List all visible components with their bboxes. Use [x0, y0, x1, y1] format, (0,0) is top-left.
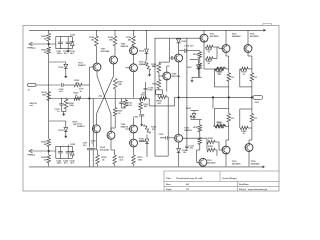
resistor R133b 1R	[250, 109, 257, 128]
wire T118 emitter	[248, 151, 250, 167]
label C121	[56, 51, 62, 55]
wire T105-T107	[133, 54, 135, 64]
node bus junction L	[228, 96, 230, 98]
wire vas rail	[155, 37, 202, 39]
svg-text:Rev/Date:: Rev/Date:	[239, 183, 249, 186]
title block divider B	[237, 181, 239, 191]
capacitor C106	[144, 82, 154, 99]
wire D106 to rail	[178, 152, 180, 166]
zener D121	[70, 34, 76, 48]
resistor R130	[204, 47, 217, 65]
resistor R116	[126, 30, 135, 47]
-V arrow	[262, 165, 265, 168]
transistor T110 driver	[175, 54, 183, 62]
resistor VR101 wiper	[158, 94, 168, 99]
rev text	[239, 183, 249, 186]
wire T116 emitter	[248, 52, 252, 69]
wire -V rail	[29, 166, 262, 168]
resistor R120	[89, 30, 98, 63]
wire +V rail	[29, 29, 263, 31]
capacitor C109	[91, 99, 96, 167]
transistor T109	[163, 72, 181, 80]
label C122	[56, 161, 62, 165]
wire T112 emitter	[226, 52, 229, 69]
capacitor C123	[66, 37, 71, 49]
resistor R119	[152, 73, 160, 90]
resistor R131 1R	[227, 69, 234, 87]
wire input	[36, 84, 61, 86]
wire vas rail bottom	[155, 155, 168, 157]
capacitor C108	[133, 110, 144, 124]
transistor T104	[100, 131, 115, 151]
svg-text:220n: 220n	[57, 163, 62, 165]
transistor T106	[121, 124, 138, 133]
resistor R135	[207, 138, 222, 150]
transistor T111	[200, 34, 219, 42]
resistor R126	[41, 152, 50, 166]
wire vas drop 169	[169, 38, 171, 54]
ground arrow under cap bank	[67, 49, 70, 53]
title text	[166, 177, 237, 180]
resistor R103	[74, 93, 81, 101]
svg-text:2SC5200: 2SC5200	[207, 163, 217, 165]
svg-text:2SC2240: 2SC2240	[101, 50, 111, 53]
diode D106	[177, 142, 188, 154]
resistor R140	[240, 126, 252, 135]
wire to D101	[49, 62, 66, 64]
resistor R113	[132, 155, 143, 166]
title block row line 1	[164, 180, 279, 182]
node bus junction R	[251, 96, 253, 98]
wire R132 loop	[214, 69, 228, 87]
svg-text:OUT: OUT	[255, 102, 260, 104]
ground arrow RC	[62, 114, 65, 116]
resistor R110	[139, 99, 149, 111]
svg-text:2SA970: 2SA970	[121, 125, 129, 128]
wire R137 loop	[214, 109, 228, 127]
title block outline	[164, 171, 279, 191]
ground arrow C108	[140, 124, 143, 126]
wire box L to bus	[228, 87, 230, 98]
wire T109 emitter	[166, 79, 168, 91]
wire R128 to T112 base	[213, 47, 223, 49]
wire bus step	[149, 97, 178, 106]
resistor R121 diagonal	[145, 53, 157, 70]
page text	[166, 189, 190, 191]
wire T106 base	[126, 128, 130, 130]
capacitor C104	[119, 99, 132, 109]
capacitor C122	[58, 146, 63, 158]
svg-text:PWR(+): PWR(+)	[28, 48, 36, 50]
wire box R to bus	[251, 87, 253, 98]
wire T111 drop	[203, 30, 205, 35]
wire R117 top	[159, 62, 170, 63]
file text	[239, 188, 267, 191]
wire T102 emitter	[96, 133, 97, 156]
wire D105 to T110	[178, 43, 180, 54]
svg-text:2SC5200: 2SC5200	[232, 163, 242, 165]
svg-text:D121: D121	[70, 34, 76, 36]
resistor R106	[124, 99, 133, 108]
title block divider A	[219, 171, 221, 181]
transistor T105	[121, 44, 138, 55]
capacitor C121	[58, 37, 63, 49]
wire RC join	[62, 112, 67, 115]
transistor T118	[245, 144, 260, 166]
wire D104 to rail	[146, 143, 148, 157]
resistor R123	[41, 30, 50, 43]
svg-text:2SA1943: 2SA1943	[232, 35, 242, 38]
wire T104 base	[111, 124, 115, 132]
wire box L bottom to bus	[228, 97, 230, 108]
label R127	[73, 122, 79, 126]
wire cross B	[96, 64, 113, 125]
wire T114 collector	[226, 126, 229, 147]
svg-text:Title:: Title:	[166, 177, 171, 180]
svg-text:Crown (Briga): Crown (Briga)	[222, 178, 237, 180]
svg-text:File(s):: File(s):	[239, 189, 246, 191]
wire T104 emitter	[111, 139, 115, 155]
svg-text:2SA1943: 2SA1943	[251, 162, 261, 165]
node bus junction mid	[212, 96, 214, 98]
resistor R104	[64, 98, 74, 112]
transistor T103	[101, 48, 118, 64]
wire T113 base rail	[197, 150, 200, 162]
wire T113 emitter	[202, 165, 204, 167]
capacitor bank box top	[56, 37, 73, 49]
label C124	[63, 160, 69, 165]
wire to D102	[49, 121, 66, 128]
wire T110 emitter	[178, 62, 180, 96]
svg-text:Size:: Size:	[166, 184, 171, 186]
resistor R137	[213, 122, 226, 128]
capacitor bank box bottom	[56, 146, 73, 158]
label PWR(-)	[28, 155, 36, 157]
title block row line 2	[164, 185, 279, 187]
resistor R107	[113, 155, 125, 166]
resistor R137b	[214, 123, 228, 128]
label C126	[70, 161, 76, 165]
svg-text:R136: R136	[193, 127, 198, 129]
wire D103 drop	[146, 30, 148, 49]
resistor R136v	[193, 120, 202, 132]
label PWR(+)	[28, 48, 36, 50]
capacitor C114 miller	[170, 54, 175, 62]
zener D122	[70, 144, 76, 158]
trimpot VR101 box	[156, 90, 163, 94]
resistor R133 1R	[250, 69, 257, 87]
transistor T110b driver	[175, 127, 193, 142]
wire bottom cap bank stub	[67, 145, 69, 147]
svg-text:D107: D107	[187, 67, 192, 69]
transistor T101	[78, 63, 101, 71]
wire T109 base	[159, 75, 164, 77]
diode D102	[59, 128, 68, 132]
wire T112 drop	[225, 30, 227, 45]
resistor R136b	[198, 132, 202, 150]
wire to input node	[82, 84, 89, 86]
resistor R132	[204, 59, 224, 76]
svg-text:D108: D108	[186, 108, 191, 110]
wire box R bottom to bus	[251, 97, 253, 109]
wire T106-T108	[133, 133, 135, 139]
svg-text:2SC2240: 2SC2240	[100, 148, 110, 151]
label unlinked	[30, 103, 38, 107]
supply arrow under D102	[64, 132, 67, 139]
svg-text:D101: D101	[59, 67, 65, 69]
wire cross A	[97, 71, 111, 132]
wire C104 R106 join	[122, 107, 126, 109]
capacitor C102	[59, 83, 65, 93]
svg-text:2SA970: 2SA970	[121, 45, 129, 48]
capacitor C110	[179, 44, 200, 52]
resistor R105	[96, 155, 108, 166]
resistor R134v	[193, 51, 202, 59]
terminal PWR(+) arrow	[29, 42, 56, 45]
zener cell bottom	[186, 97, 202, 145]
svg-text:2SA970: 2SA970	[78, 64, 86, 67]
svg-text:D102: D102	[59, 130, 65, 132]
diode D105	[177, 38, 188, 43]
resistor R128	[206, 45, 214, 53]
transistor T107	[130, 61, 148, 71]
wire T101 base	[89, 66, 93, 68]
resistor R114	[140, 92, 147, 100]
+V arrow	[263, 29, 266, 32]
transistor T116	[244, 34, 259, 53]
resistor R118	[108, 30, 117, 55]
diode D103	[139, 49, 148, 53]
wire T107 base	[126, 67, 130, 69]
wire mid drop	[212, 97, 214, 108]
resistor R122 diagonal	[144, 125, 157, 134]
wire R140 loop	[240, 109, 252, 128]
svg-text:2SA970: 2SA970	[77, 125, 85, 128]
svg-text:D103: D103	[139, 51, 145, 53]
size text	[166, 183, 190, 186]
resistor R132	[214, 67, 228, 76]
transistor T113	[199, 158, 216, 166]
capacitor C112	[159, 134, 175, 140]
transistor T114	[222, 146, 241, 165]
resistor R102	[42, 92, 51, 101]
wire input column	[88, 67, 90, 148]
zener cell top	[187, 38, 202, 97]
svg-text:220n: 220n	[57, 53, 62, 55]
transistor T108	[130, 138, 148, 147]
svg-text:2SB649: 2SB649	[139, 63, 147, 66]
svg-text:Page:: Page:	[166, 189, 172, 191]
capacitor C107	[83, 143, 92, 167]
resistor R131b 1R	[227, 109, 234, 127]
node PWR+ junction	[48, 43, 50, 45]
label C123	[63, 51, 69, 55]
wire T106 collector	[133, 118, 135, 125]
wire after C102	[63, 84, 74, 86]
svg-text:2SC2240: 2SC2240	[172, 75, 182, 78]
resistor R109	[113, 79, 123, 99]
wire main bus	[49, 98, 150, 100]
svg-text:Thunderbird amp-07 mkII: Thunderbird amp-07 mkII	[176, 178, 203, 180]
label C111	[99, 95, 103, 97]
node PWR- junction	[48, 150, 50, 152]
terminal PWR(-) arrow	[29, 149, 56, 152]
node feedback junction	[88, 97, 90, 99]
svg-text:100n: 100n	[148, 90, 153, 92]
svg-text:2SA970: 2SA970	[184, 129, 192, 132]
svg-text:2SC5200: 2SC5200	[250, 36, 260, 38]
wire box drop	[167, 97, 169, 156]
transistor T102	[77, 123, 100, 132]
terminal IN	[28, 84, 37, 92]
svg-text:D104: D104	[139, 140, 145, 143]
ground arrow R121	[148, 71, 151, 77]
terminal OUT	[253, 95, 263, 104]
wire T116 drop	[247, 30, 249, 45]
drawing frame	[23, 26, 279, 192]
diode D104	[139, 135, 149, 144]
transistor T112	[222, 34, 241, 53]
wire T109 collector	[167, 66, 170, 72]
wire T118 collector	[249, 128, 252, 145]
wire driver output bottom	[183, 138, 208, 142]
svg-text:2SC5200: 2SC5200	[210, 36, 220, 38]
svg-text:2W: 2W	[73, 124, 76, 126]
capacitor C116	[185, 145, 195, 151]
svg-text:unl.: unl.	[30, 105, 34, 107]
resistor R117	[152, 63, 160, 72]
svg-text:PWR(-): PWR(-)	[28, 155, 36, 157]
label C125	[70, 51, 76, 55]
wire left column	[48, 54, 50, 139]
resistor R111	[113, 99, 123, 125]
capacitor C103	[55, 98, 64, 113]
wire T108 emitter	[133, 147, 135, 155]
resistor R138	[240, 67, 252, 76]
wire T111 emitter	[203, 41, 205, 47]
supply arrow under D101	[64, 68, 67, 78]
resistor R124	[41, 45, 50, 54]
wire R138 loop	[240, 69, 252, 87]
resistor R134b	[198, 59, 202, 78]
resistor R101	[74, 80, 82, 87]
wire bus right	[179, 96, 253, 98]
capacitor C124	[66, 146, 71, 158]
diode D101	[59, 64, 68, 69]
label C105	[79, 89, 84, 93]
svg-text:amp-schematic.gif: amp-schematic.gif	[248, 188, 267, 191]
label VR101	[156, 101, 163, 105]
wire driver emitter down	[178, 97, 180, 134]
wire vas rail drop left	[154, 38, 156, 156]
resistor R129	[207, 142, 217, 156]
resistor R125	[41, 139, 50, 150]
wire T107 emitter	[133, 72, 135, 98]
wire T114 emitter	[225, 153, 227, 166]
node driver junction	[178, 96, 180, 98]
sheet zone tick	[263, 23, 272, 25]
svg-text:D122: D122	[70, 144, 76, 146]
